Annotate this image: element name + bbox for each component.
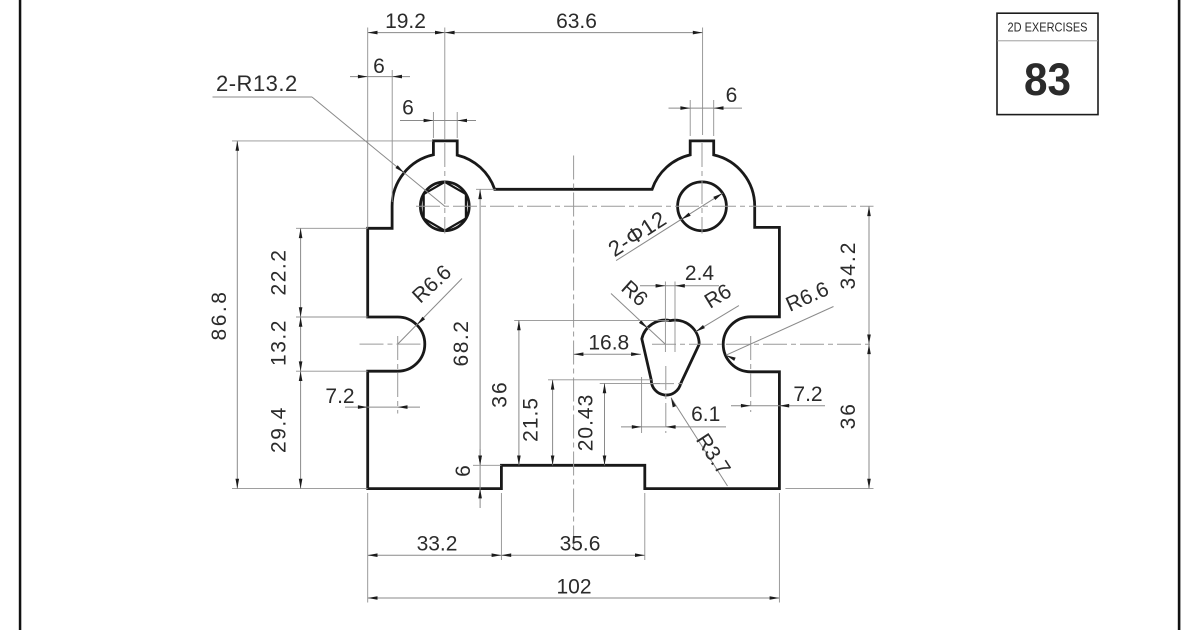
svg-text:R6: R6 — [617, 276, 652, 311]
svg-text:33.2: 33.2 — [417, 533, 458, 556]
dimension 2.4 teardrop centers — [664, 282, 666, 353]
dimension 13.2 — [300, 317, 302, 371]
svg-text:6: 6 — [726, 84, 738, 107]
svg-text:36: 36 — [837, 402, 860, 429]
centerline left slot — [360, 343, 425, 345]
leader R3.7 — [671, 398, 728, 486]
svg-text:2.4: 2.4 — [685, 262, 715, 285]
title block divider — [997, 40, 1098, 42]
bottom extension lines — [367, 493, 369, 603]
dimension 7.2 left slot — [345, 406, 420, 408]
right hole circle (phi 12) — [678, 182, 727, 231]
centerline vertical left hole — [444, 143, 446, 234]
svg-text:86.8: 86.8 — [208, 290, 231, 341]
svg-text:16.8: 16.8 — [588, 332, 629, 355]
leader R6 left — [611, 294, 665, 345]
svg-text:6: 6 — [373, 55, 385, 78]
dimension 102 — [368, 597, 780, 599]
left hole circle (phi 12) — [420, 182, 469, 231]
leader R6 right — [696, 306, 739, 332]
centerline horizontal through both holes — [416, 205, 874, 207]
svg-text:20.43: 20.43 — [575, 394, 598, 452]
part vertical centerline — [573, 156, 575, 548]
svg-text:63.6: 63.6 — [556, 10, 597, 33]
hexagon inscribed in left hole — [424, 182, 466, 231]
page border right vertical line — [1178, 0, 1181, 630]
dimension 29.4 — [300, 371, 302, 488]
teardrop bottom circle horizontal centerline — [650, 383, 684, 385]
teardrop bottom circle vertical centerline — [665, 366, 667, 433]
svg-text:19.2: 19.2 — [385, 10, 426, 33]
centerline vertical right hole — [701, 143, 703, 234]
svg-text:83: 83 — [1024, 54, 1071, 105]
svg-text:29.4: 29.4 — [268, 406, 291, 453]
svg-text:R6.6: R6.6 — [408, 261, 456, 308]
svg-text:2-Φ12: 2-Φ12 — [604, 206, 671, 262]
dimension 36 left (teardrop top to notch) — [514, 319, 669, 321]
title block box — [997, 13, 1098, 114]
svg-text:13.2: 13.2 — [268, 319, 291, 366]
leader 2-phi12 diameter — [616, 193, 723, 260]
svg-text:R3.7: R3.7 — [691, 430, 734, 480]
svg-text:68.2: 68.2 — [450, 320, 473, 367]
svg-text:34.2: 34.2 — [837, 241, 860, 290]
teardrop hole (two R6 arcs on top, R3.7 at bottom) — [642, 320, 699, 395]
dimension 34.2 right side — [868, 206, 870, 344]
dimension 86.8 — [236, 141, 238, 489]
svg-text:6: 6 — [402, 97, 414, 120]
dimension 63.6 top — [702, 28, 704, 136]
dimension 6 (left edge to lobe) — [391, 70, 393, 202]
svg-text:22.2: 22.2 — [268, 249, 291, 296]
leader R6.6 left slot — [398, 279, 462, 345]
dimension 22.2 — [300, 228, 302, 317]
dimension 35.6 — [501, 554, 644, 556]
svg-text:7.2: 7.2 — [793, 383, 822, 406]
svg-text:36: 36 — [489, 380, 512, 407]
svg-text:102: 102 — [556, 576, 591, 599]
part outline (plate with two top lobes, side slots, bottom notch) — [368, 141, 780, 489]
svg-text:2D EXERCISES: 2D EXERCISES — [1008, 20, 1088, 35]
dimension 7.2 right slot — [731, 405, 825, 407]
svg-text:21.5: 21.5 — [520, 397, 543, 442]
svg-text:6: 6 — [452, 465, 475, 477]
dimension 19.2 top — [367, 28, 369, 229]
extension line part bottom left — [232, 488, 368, 490]
dimension 68.2 — [476, 188, 496, 190]
centerline left slot cap vertical — [397, 336, 399, 414]
leader R6.6 right slot — [726, 307, 834, 356]
centerline right slot cap vertical — [750, 336, 752, 412]
dimension 6.1 teardrop — [641, 377, 643, 433]
extension line part top y=140.9 — [232, 140, 433, 142]
svg-text:35.6: 35.6 — [560, 533, 601, 556]
page border left vertical line — [19, 0, 22, 630]
centerline right slot / teardrop horizontal — [652, 343, 874, 345]
dimension 36 right side — [868, 344, 870, 488]
dimension 21.5 — [548, 379, 652, 381]
dimension 6 (left tab width) — [432, 112, 434, 138]
extension lines left slot dims — [296, 227, 368, 229]
leader 2-R13.2 — [213, 96, 313, 98]
dimension 16.8 — [574, 353, 641, 355]
dimension 6 bottom notch — [473, 464, 501, 466]
svg-text:6.1: 6.1 — [691, 403, 720, 426]
svg-text:7.2: 7.2 — [325, 385, 354, 408]
dimension 20.43 — [600, 382, 660, 384]
dimension 6 (right tab width) — [689, 100, 691, 136]
svg-text:2-R13.2: 2-R13.2 — [216, 71, 298, 96]
dimension 33.2 — [368, 554, 502, 556]
